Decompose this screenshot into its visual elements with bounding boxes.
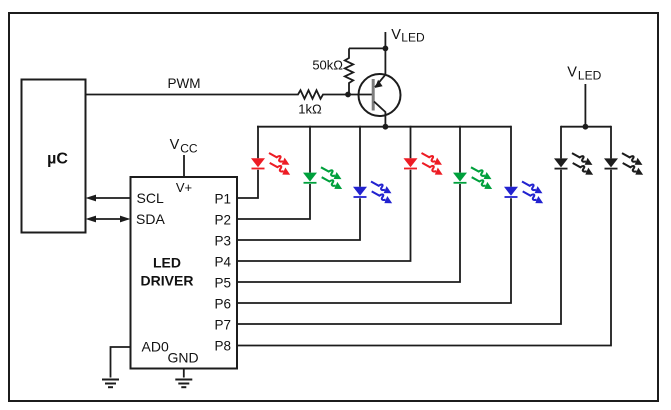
wire D2 cathode to P2 (237, 184, 310, 219)
wire VLED node to 50k resistor top (349, 47, 385, 49)
svg-text:P8: P8 (214, 338, 231, 353)
LED D4 red (404, 150, 445, 178)
wire 1k resistor to base node (328, 94, 373, 96)
svg-text:P1: P1 (214, 191, 231, 206)
svg-text:GND: GND (167, 350, 198, 366)
resistor R1 50kΩ (312, 48, 353, 94)
svg-text:P6: P6 (214, 296, 231, 311)
svg-text:µC: µC (47, 151, 68, 168)
svg-text:V: V (170, 137, 180, 153)
wire branch to D8 (610, 126, 612, 159)
resistor R2 1kΩ (293, 90, 328, 116)
net VLED right (567, 65, 601, 127)
svg-text:P5: P5 (214, 275, 231, 290)
wire D6 cathode to P6 (237, 198, 511, 303)
wire branch to D1 (257, 126, 259, 159)
svg-text:SCL: SCL (137, 190, 164, 206)
svg-text:P4: P4 (214, 254, 231, 269)
wire PWM from µC to 1k resistor (86, 76, 294, 95)
svg-text:V+: V+ (176, 180, 192, 195)
LED D6 blue (504, 178, 545, 206)
node VLED junction (383, 46, 389, 52)
svg-text:P7: P7 (214, 317, 231, 332)
LED D2 green (303, 164, 344, 192)
wire D4 cathode to P4 (237, 170, 411, 261)
wire branch to D4 (410, 126, 412, 159)
LED D7 white (554, 150, 595, 178)
wire SCL with arrow to µC (86, 195, 131, 202)
LED D3 blue (353, 178, 394, 206)
svg-text:AD0: AD0 (142, 339, 169, 355)
ground GND (175, 380, 192, 388)
svg-text:SDA: SDA (136, 211, 165, 227)
transistor Q1 PNP (359, 48, 401, 126)
wire branch to D6 (510, 126, 512, 187)
LED D1 red (251, 150, 292, 178)
wire branch to D3 (359, 126, 361, 187)
op-amp U1 LED driver IC (131, 177, 238, 369)
ground AD0 (102, 380, 119, 388)
net VCC (170, 137, 198, 177)
node VLED right junction (583, 124, 589, 130)
wire D8 cathode to P8 (237, 170, 611, 346)
svg-text:1kΩ: 1kΩ (298, 102, 322, 117)
wire VLED right rail (561, 126, 611, 128)
wire D1 cathode to P1 (237, 170, 258, 198)
LED D5 green (453, 164, 494, 192)
svg-text:LED: LED (401, 31, 425, 45)
wire D5 cathode to P5 (237, 184, 460, 282)
wire branch to D7 (560, 126, 562, 159)
svg-text:V: V (567, 65, 577, 81)
wire AD0 to ground (111, 347, 131, 378)
LED D8 white (604, 150, 645, 178)
svg-text:P3: P3 (214, 233, 231, 248)
node base junction (345, 92, 351, 98)
svg-text:PWM: PWM (168, 76, 201, 91)
wire GND pin to ground (183, 369, 185, 378)
svg-text:CC: CC (180, 141, 198, 155)
wire anode rail (257, 126, 512, 128)
net VLED top (385, 27, 425, 49)
wire branch to D5 (459, 126, 461, 173)
wire branch to D2 (309, 126, 311, 173)
wire D7 cathode to P7 (237, 170, 561, 324)
svg-text:V: V (391, 27, 401, 43)
svg-text:P2: P2 (214, 212, 231, 227)
svg-text:LED: LED (578, 69, 602, 83)
wire D3 cathode to P3 (237, 198, 360, 240)
node collector rail junction (383, 124, 389, 130)
wire SDA bidirectional arrow (86, 216, 131, 223)
svg-text:DRIVER: DRIVER (141, 273, 194, 289)
svg-text:50kΩ: 50kΩ (312, 58, 343, 73)
microcontroller µC (22, 80, 86, 233)
svg-text:LED: LED (153, 255, 181, 271)
